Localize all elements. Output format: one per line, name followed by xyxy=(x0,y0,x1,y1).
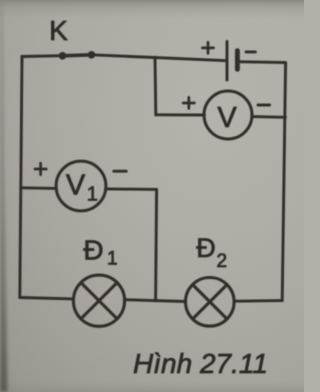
svg-text:K: K xyxy=(49,15,68,46)
wire: lamp D2 to right vertical xyxy=(234,299,282,303)
svg-text:V: V xyxy=(66,169,86,201)
wire: between lamps xyxy=(125,300,186,302)
lamp D2 circle xyxy=(186,278,235,327)
wire: V1 right horizontal xyxy=(106,187,157,190)
battery long plate (+) xyxy=(226,42,229,81)
voltmeter V - label xyxy=(258,104,270,107)
battery short plate (-) xyxy=(235,51,240,70)
svg-text:Hình 27.11: Hình 27.11 xyxy=(133,348,268,379)
svg-text:1: 1 xyxy=(87,184,98,206)
svg-text:2: 2 xyxy=(217,251,228,272)
battery + label xyxy=(203,42,214,53)
wire: switch to battery positive xyxy=(92,55,228,61)
wire: V1 right vertical down xyxy=(156,189,157,301)
battery - label xyxy=(246,50,255,53)
switch K terminal dot 2 xyxy=(88,51,96,59)
voltmeter V1 circle xyxy=(56,161,106,211)
wire: V1 left from left rail xyxy=(21,186,57,189)
wire: battery to right vertical xyxy=(237,60,285,64)
wire: top left to switch xyxy=(22,54,62,58)
wire: voltmeter V right xyxy=(252,115,285,119)
svg-text:V: V xyxy=(217,102,237,134)
lamp D1 cross xyxy=(81,283,117,319)
voltmeter V circle xyxy=(204,91,252,139)
lamp D1 circle xyxy=(73,275,124,326)
wire: junction drop to voltmeter V xyxy=(154,57,158,115)
svg-text:Đ: Đ xyxy=(196,233,216,263)
voltmeter V1 + label xyxy=(35,163,46,174)
switch K terminal dot 1 xyxy=(59,52,67,60)
switch K blade xyxy=(63,55,92,56)
voltmeter V1 - label xyxy=(114,170,126,173)
wire: to voltmeter V left xyxy=(156,113,205,116)
svg-text:Đ: Đ xyxy=(83,234,103,265)
wire: bottom left to lamp D1 xyxy=(20,298,74,299)
svg-text:1: 1 xyxy=(107,249,118,270)
wire: left vertical xyxy=(20,57,22,298)
lamp D2 cross xyxy=(193,285,227,319)
voltmeter V + label xyxy=(183,97,194,108)
wire: right vertical xyxy=(282,63,285,301)
